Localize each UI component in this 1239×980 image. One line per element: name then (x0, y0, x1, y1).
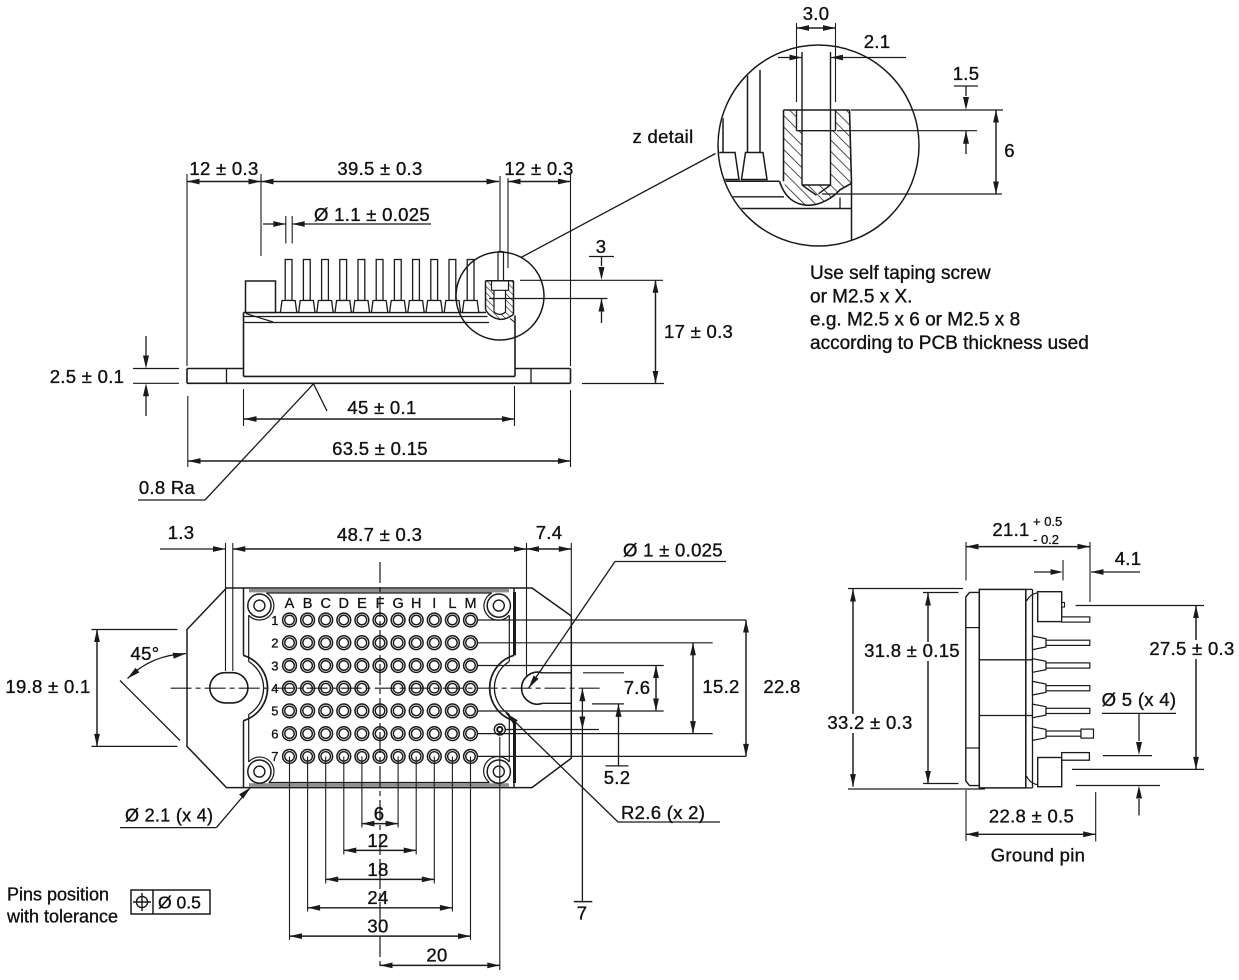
svg-text:H: H (411, 596, 421, 612)
counterbore reference line (489, 298, 608, 300)
svg-text:- 0.2: - 0.2 (1033, 532, 1059, 547)
dim 7.4 (527, 548, 572, 550)
baseplate strip (edge-on) (966, 592, 980, 785)
svg-text:I: I (432, 596, 436, 612)
bottom tab block (1038, 758, 1062, 787)
horizontal centerline (171, 687, 601, 689)
svg-text:1.3: 1.3 (168, 522, 195, 543)
svg-text:12 ± 0.3: 12 ± 0.3 (504, 158, 573, 179)
svg-text:Pins position: Pins position (7, 885, 109, 905)
feature control frame (131, 890, 210, 914)
dim 1.5 (954, 86, 978, 154)
svg-text:20: 20 (426, 945, 447, 966)
svg-text:15.2: 15.2 (702, 676, 739, 697)
test pin dia 1 (494, 724, 505, 735)
svg-text:30: 30 (367, 916, 388, 937)
svg-text:6: 6 (271, 726, 278, 741)
dim 15.2 (692, 643, 694, 734)
svg-text:7: 7 (271, 749, 278, 764)
svg-text:39.5 ± 0.3: 39.5 ± 0.3 (337, 158, 422, 179)
svg-text:12: 12 (367, 830, 388, 851)
neighbour pin bases inside detail (714, 70, 767, 180)
dim 24 (pins B-L) (308, 907, 453, 909)
svg-text:L: L (448, 596, 456, 612)
svg-text:63.5 ± 0.15: 63.5 ± 0.15 (332, 438, 428, 459)
dim 7 (centerline to test-pin row) (574, 688, 593, 901)
pin grid 11 x 7 (283, 613, 478, 763)
svg-text:e.g. M2.5 x 6 or M2.5 x 8: e.g. M2.5 x 6 or M2.5 x 8 (810, 310, 1020, 331)
dim 6 (995, 110, 997, 194)
svg-text:Ø 1 ± 0.025: Ø 1 ± 0.025 (623, 540, 723, 561)
dim 31.8 +/- 0.15 (923, 593, 959, 784)
dim 33.2 +/- 0.3 (848, 589, 985, 790)
svg-text:G: G (392, 596, 403, 612)
row reference lines to the right (477, 620, 746, 756)
dim 48.7 +/- 0.3 (233, 548, 527, 550)
body block (edge-on) (979, 589, 1032, 788)
left mounting slot (1.3 elongated) (210, 673, 248, 703)
dim 63.5 +/- 0.15 (188, 390, 571, 467)
svg-text:1.5: 1.5 (953, 63, 980, 84)
svg-text:12 ± 0.3: 12 ± 0.3 (189, 158, 258, 179)
svg-text:5.2: 5.2 (604, 767, 631, 788)
svg-text:Use self taping screw: Use self taping screw (810, 263, 991, 284)
dim 5.2 (606, 704, 629, 766)
baseplate side profile 63.5 x 2.5 (187, 369, 571, 384)
svg-text:33.2 ± 0.3: 33.2 ± 0.3 (827, 712, 912, 733)
column letters (285, 596, 477, 612)
step at right of boss (840, 183, 852, 240)
dim 12 +/- 0.3 (left) (187, 181, 261, 183)
dim 18 (pins C-I) (326, 878, 435, 880)
pin row bases and pins (1033, 617, 1094, 760)
svg-text:22.8 ± 0.5: 22.8 ± 0.5 (989, 806, 1074, 827)
svg-text:z detail: z detail (632, 126, 693, 147)
dim 45 +/- 0.1 (244, 386, 515, 426)
svg-text:3: 3 (271, 658, 278, 673)
dim 27.5 +/- 0.3 (1072, 606, 1204, 770)
baseplate octagon outline (187, 588, 571, 788)
svg-text:21.1: 21.1 (992, 519, 1029, 540)
dim 19.8 +/- 0.1 (92, 630, 178, 747)
dim 2.1 (778, 55, 906, 61)
svg-text:22.8: 22.8 (763, 676, 800, 697)
svg-text:2.5 ± 0.1: 2.5 ± 0.1 (50, 366, 125, 387)
boss hatching (784, 110, 852, 205)
svg-text:7.4: 7.4 (536, 522, 563, 543)
svg-text:R2.6 (x 2): R2.6 (x 2) (621, 802, 705, 823)
dim 39.5 +/- 0.3 (261, 181, 499, 183)
svg-text:+ 0.5: + 0.5 (1033, 514, 1062, 529)
top extension lines (226, 543, 572, 677)
top tab block (1038, 592, 1065, 622)
svg-text:Ground pin: Ground pin (991, 845, 1086, 866)
label dia 2.1 (x 4) with leader (120, 827, 216, 829)
label dia 5 (x 4) (1076, 713, 1176, 815)
dim 3 (boss height) (589, 257, 614, 324)
body outer rectangle (244, 588, 515, 788)
svg-text:B: B (303, 596, 313, 612)
svg-text:19.8 ± 0.1: 19.8 ± 0.1 (5, 676, 90, 697)
boss outline (780, 110, 852, 205)
svg-text:7: 7 (577, 903, 588, 924)
svg-text:24: 24 (367, 887, 388, 908)
svg-text:7.6: 7.6 (624, 677, 651, 698)
body right face strip (1026, 589, 1038, 788)
svg-text:45°: 45° (131, 643, 160, 664)
module body outline 45 wide (244, 313, 516, 377)
dim 4.1 (1034, 560, 1140, 581)
svg-text:E: E (357, 596, 367, 612)
body inner outline with corner wraps (249, 593, 510, 783)
svg-text:Ø 5 (x 4): Ø 5 (x 4) (1102, 689, 1177, 710)
svg-text:18: 18 (367, 859, 388, 880)
dim 12 +/- 0.3 (right) (508, 181, 571, 183)
detail boundary circle (718, 45, 919, 246)
boss top reference line (520, 279, 663, 281)
svg-text:48.7 ± 0.3: 48.7 ± 0.3 (337, 524, 422, 545)
svg-text:C: C (320, 596, 330, 612)
column extension lines below (290, 737, 500, 970)
left blade-pin block (246, 281, 276, 313)
vertical centerline (col F) (379, 562, 381, 970)
svg-text:6: 6 (1004, 140, 1015, 161)
svg-text:Ø 1.1 ± 0.025: Ø 1.1 ± 0.025 (314, 204, 430, 225)
dim 22.8 +/- 0.5 (966, 790, 1096, 841)
svg-text:45 ± 0.1: 45 ± 0.1 (347, 397, 416, 418)
dim 30 (pins A-M) (290, 935, 471, 937)
label R2.6 (x 2) with leader (506, 713, 720, 822)
extension lines (top dims) (187, 174, 571, 366)
right hole bulge arcs (490, 655, 514, 721)
4 corner screw holes (248, 594, 511, 783)
svg-text:0.8 Ra: 0.8 Ra (139, 477, 196, 498)
module top plate lines inside detail (712, 181, 852, 208)
svg-text:4.1: 4.1 (1115, 548, 1142, 569)
dim 22.8 (745, 620, 747, 756)
svg-text:31.8 ± 0.15: 31.8 ± 0.15 (864, 640, 960, 661)
svg-text:Ø 2.1 (x 4): Ø 2.1 (x 4) (125, 806, 213, 826)
dim 3.0 (797, 23, 836, 102)
svg-text:or M2.5 x X.: or M2.5 x X. (810, 286, 912, 307)
dim 1.3 (160, 548, 226, 550)
dim dia 1.1 +/- 0.025 (pin) (263, 216, 431, 244)
grey top and bottom edge bands (249, 589, 509, 593)
dim 21.1 +0.5 -0.2 (966, 542, 1090, 602)
counterbore (797, 110, 836, 131)
svg-text:5: 5 (271, 704, 278, 719)
svg-text:F: F (376, 596, 385, 612)
dim 7.6 (655, 666, 657, 712)
dim 12 (pins D-H) (344, 849, 416, 851)
dim 20 (center to test pin) (380, 964, 500, 966)
11 signal pins with molded bases (280, 260, 478, 313)
z-detail locator circle (456, 252, 544, 340)
svg-text:4: 4 (271, 681, 278, 696)
left hole bulge arcs (243, 655, 267, 721)
svg-text:6: 6 (374, 803, 385, 824)
svg-text:3.0: 3.0 (803, 3, 830, 24)
angle dim 45 deg (120, 653, 186, 741)
svg-text:with tolerance: with tolerance (6, 907, 118, 927)
right open slot with end radius (522, 672, 572, 704)
dim 17 +/- 0.3 (582, 383, 664, 385)
svg-text:D: D (339, 596, 349, 612)
svg-text:27.5 ± 0.3: 27.5 ± 0.3 (1149, 638, 1234, 659)
leader to z detail (521, 154, 716, 258)
reference lines right of detail (822, 110, 1003, 194)
dim 2.5 +/- 0.1 (plate thickness) (133, 336, 179, 416)
svg-text:17 ± 0.3: 17 ± 0.3 (664, 321, 733, 342)
svg-text:Ø 0.5: Ø 0.5 (158, 893, 201, 913)
svg-text:2.1: 2.1 (864, 31, 891, 52)
svg-text:3: 3 (596, 236, 607, 257)
svg-text:1: 1 (271, 613, 278, 628)
svg-text:M: M (464, 596, 476, 612)
pilot hole and pin (802, 52, 831, 195)
surface finish 0.8 Ra callout (138, 384, 327, 500)
svg-text:2: 2 (271, 636, 278, 651)
svg-text:according to PCB thickness use: according to PCB thickness used (810, 333, 1089, 354)
screw boss cross-section (main view) (486, 252, 516, 323)
dim 6 (pins E-G) (362, 823, 398, 825)
svg-text:A: A (285, 596, 295, 612)
label dia 1 +/- 0.025 with leader (529, 562, 727, 689)
row numbers (271, 613, 278, 764)
